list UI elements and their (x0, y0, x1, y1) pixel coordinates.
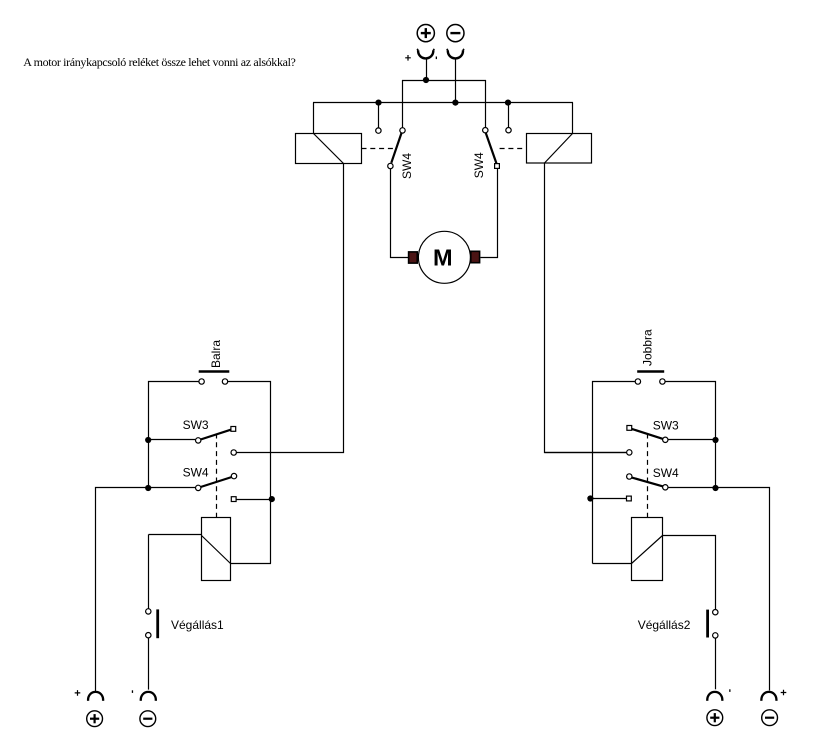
svg-text:SW3: SW3 (183, 418, 209, 432)
svg-text:M: M (433, 245, 453, 271)
svg-text:SW4: SW4 (183, 466, 209, 480)
svg-text:A motor iránykapcsoló reléket: A motor iránykapcsoló reléket össze lehe… (23, 55, 295, 69)
svg-text:Balra: Balra (209, 340, 223, 368)
svg-text:Végállás1: Végállás1 (171, 618, 224, 632)
svg-text:SW3: SW3 (653, 419, 679, 433)
svg-text:SW4: SW4 (400, 153, 414, 179)
svg-text:Végállás2: Végállás2 (638, 618, 691, 632)
svg-text:SW4: SW4 (472, 152, 486, 178)
svg-text:Jobbra: Jobbra (641, 329, 655, 366)
svg-text:SW4: SW4 (653, 466, 679, 480)
